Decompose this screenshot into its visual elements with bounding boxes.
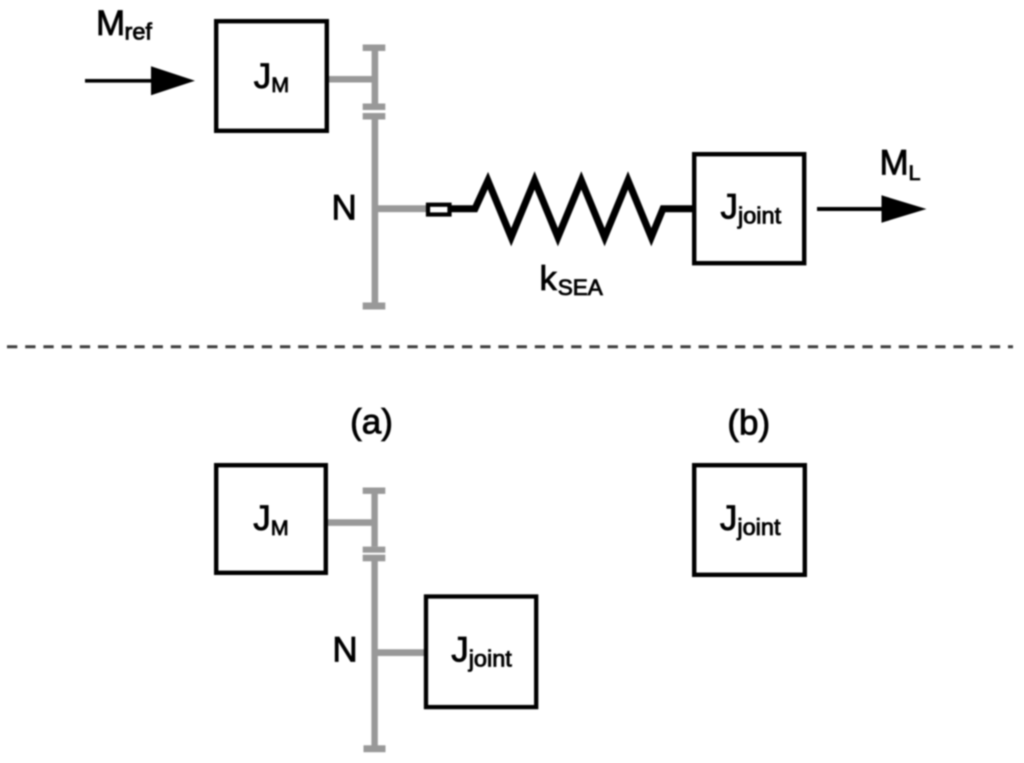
svg-text:N: N — [332, 188, 357, 227]
svg-text:(a): (a) — [350, 403, 393, 442]
svg-text:N: N — [332, 630, 357, 669]
svg-text:M: M — [96, 4, 125, 43]
svg-text:L: L — [909, 161, 921, 185]
svg-text:(b): (b) — [727, 404, 770, 443]
svg-text:SEA: SEA — [558, 275, 603, 300]
svg-text:M: M — [880, 144, 909, 183]
svg-text:k: k — [540, 260, 558, 298]
svg-text:ref: ref — [125, 19, 153, 45]
